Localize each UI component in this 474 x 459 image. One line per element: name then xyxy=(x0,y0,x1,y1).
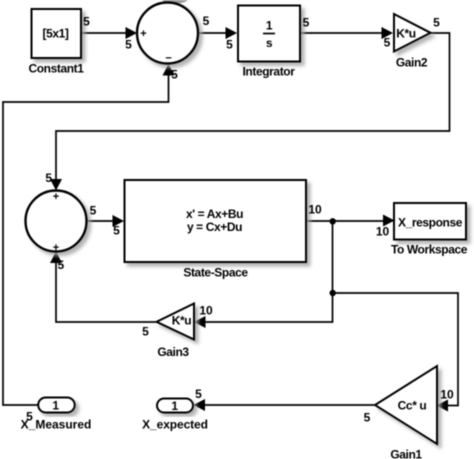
wire Sum1 to Integrator xyxy=(198,27,237,39)
svg-text:1: 1 xyxy=(171,399,178,413)
block Constant1 xyxy=(32,9,82,58)
junction A dot xyxy=(330,218,336,224)
svg-text:5: 5 xyxy=(57,258,64,272)
svg-text:5: 5 xyxy=(26,410,33,424)
svg-text:5: 5 xyxy=(203,14,210,28)
svg-text:+: + xyxy=(53,242,59,254)
wire Sum2 to State-Space xyxy=(87,215,124,227)
gain Gain3 xyxy=(157,304,195,340)
svg-text:−: − xyxy=(165,53,171,65)
wire X_Measured feedback to Sum1 bottom xyxy=(3,64,175,405)
svg-text:X_expected: X_expected xyxy=(142,418,208,432)
svg-text:K*u: K*u xyxy=(172,314,192,328)
inport X_Measured xyxy=(38,398,74,413)
svg-text:10: 10 xyxy=(199,304,213,318)
svg-text:Constant1: Constant1 xyxy=(28,62,84,76)
svg-text:5: 5 xyxy=(226,38,233,52)
clipped shadow artifact at top of Sum1 xyxy=(162,0,189,4)
svg-text:Gain2: Gain2 xyxy=(396,56,428,70)
svg-text:To Workspace: To Workspace xyxy=(391,243,468,257)
wire Constant1 to Sum1 xyxy=(81,27,137,39)
svg-text:Cc* u: Cc* u xyxy=(398,399,427,413)
wire Gain2 feedback to Sum2 top xyxy=(50,33,450,191)
svg-text:5: 5 xyxy=(171,68,178,82)
svg-text:5: 5 xyxy=(195,387,202,401)
svg-text:+: + xyxy=(53,191,59,203)
svg-text:Gain1: Gain1 xyxy=(390,448,422,459)
wire Gain1 to X_expected xyxy=(194,399,377,411)
wire Gain3 to Sum2 bottom xyxy=(50,252,156,323)
gain Gain1 xyxy=(375,366,437,444)
svg-text:5: 5 xyxy=(142,325,149,339)
svg-text:5: 5 xyxy=(113,224,120,238)
svg-text:10: 10 xyxy=(308,203,322,217)
svg-text:1: 1 xyxy=(52,399,59,413)
wire State-Space to To Workspace xyxy=(306,215,395,227)
svg-text:x' = Ax+Bu: x' = Ax+Bu xyxy=(186,207,243,221)
svg-text:State-Space: State-Space xyxy=(183,266,248,280)
svg-text:5: 5 xyxy=(125,38,132,52)
sum junction Sum1 xyxy=(137,3,198,64)
svg-text:5: 5 xyxy=(433,16,440,30)
svg-text:Integrator: Integrator xyxy=(242,65,295,79)
svg-text:K*u: K*u xyxy=(396,27,416,41)
svg-text:5: 5 xyxy=(384,36,391,50)
svg-text:1: 1 xyxy=(266,19,273,33)
svg-text:X_response: X_response xyxy=(398,216,463,230)
svg-text:[5x1]: [5x1] xyxy=(42,27,68,41)
svg-text:5: 5 xyxy=(45,171,52,185)
junction B dot xyxy=(330,290,336,296)
svg-text:10: 10 xyxy=(376,225,390,239)
svg-text:5: 5 xyxy=(303,16,310,30)
outport X_expected xyxy=(157,399,193,413)
block To Workspace xyxy=(394,203,466,240)
svg-text:+: + xyxy=(140,28,146,40)
svg-text:10: 10 xyxy=(440,388,454,402)
block State-Space xyxy=(125,180,307,262)
gain Gain2 xyxy=(394,14,431,52)
svg-text:s: s xyxy=(266,36,273,50)
wire junction B to Gain3 xyxy=(194,293,333,328)
block Integrator xyxy=(238,6,300,62)
sum junction Sum2 xyxy=(26,191,87,252)
svg-text:5: 5 xyxy=(364,411,371,425)
wire Integrator to Gain2 xyxy=(301,27,393,39)
svg-text:y = Cx+Du: y = Cx+Du xyxy=(187,220,242,234)
svg-text:5: 5 xyxy=(83,15,90,29)
wire branch down from junction A xyxy=(332,221,334,293)
wire junction B to Gain1 xyxy=(333,293,459,412)
svg-text:Gain3: Gain3 xyxy=(157,345,189,359)
svg-text:5: 5 xyxy=(90,204,97,218)
